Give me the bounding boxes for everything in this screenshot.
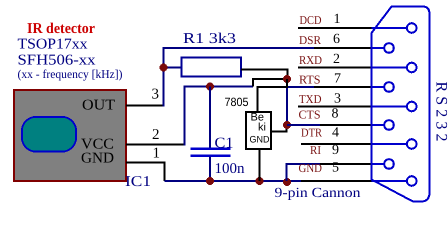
wire DSR black segment (314, 47, 372, 49)
connector pin 9 (384, 159, 394, 169)
svg-text:5: 5 (332, 161, 339, 176)
connector pin 1 (407, 23, 417, 33)
wire VCC riser and run (185, 87, 254, 146)
wire RI riser (287, 164, 323, 181)
wire OUT net riser and top run to DSR (164, 48, 317, 107)
svg-text:ki: ki (258, 122, 266, 134)
connector pin stubs right column (1,2,3,4,5) (372, 27, 412, 29)
svg-text:1: 1 (334, 12, 341, 27)
svg-text:IR detector: IR detector (27, 21, 95, 37)
svg-text:6: 6 (333, 32, 340, 47)
wire R1 left lead (164, 67, 183, 69)
wire RI row black segment (320, 163, 372, 165)
svg-text:9-pin Cannon: 9-pin Cannon (275, 186, 361, 201)
wire DTR row (301, 143, 372, 145)
wire OUT stub (pin 3) (126, 105, 165, 107)
wire TXD row (298, 106, 372, 108)
svg-text:C1: C1 (215, 136, 234, 152)
wire R1 right lead down to +V node (241, 70, 288, 80)
connector pin 6 (384, 43, 394, 53)
resistor R1 (182, 58, 242, 77)
wire CTS navy segment (287, 124, 322, 126)
connector pin 5 (407, 176, 417, 186)
DB9 connector outline (372, 7, 430, 202)
svg-text:4: 4 (332, 126, 339, 141)
wire VCC stub (pin 2) (126, 144, 186, 146)
svg-text:8: 8 (332, 107, 339, 122)
svg-text:DCD: DCD (300, 13, 322, 27)
svg-text:CTS: CTS (299, 108, 321, 122)
svg-text:RXD: RXD (299, 53, 322, 67)
connector pin 4 (407, 139, 417, 149)
connector pin 8 (384, 120, 394, 130)
wire GND row black segment to connector (301, 180, 378, 182)
regulator U1 7805 body (246, 112, 271, 149)
svg-text:(xx - frequency [kHz]): (xx - frequency [kHz]) (18, 67, 123, 81)
svg-text:2: 2 (333, 52, 340, 67)
wire RTS navy segment (287, 86, 317, 88)
svg-text:9: 9 (332, 143, 339, 158)
node +V junction (283, 75, 291, 83)
svg-text:7805: 7805 (225, 95, 249, 109)
svg-text:100n: 100n (215, 161, 246, 177)
svg-text:DTR: DTR (301, 126, 322, 140)
regulator 7805 ground lead (259, 149, 261, 181)
node GND/RI junction (283, 178, 291, 186)
svg-text:TXD: TXD (299, 92, 322, 106)
svg-text:OUT: OUT (82, 98, 115, 114)
connector pin stubs left column (6,7,8,9) (372, 47, 390, 49)
svg-text:GND: GND (81, 151, 114, 167)
wire GND stub (pin 1) (126, 163, 165, 182)
svg-text:3: 3 (152, 87, 160, 103)
svg-text:IC1: IC1 (125, 174, 151, 190)
capacitor C1 plates (191, 147, 231, 149)
svg-text:TSOP17xx: TSOP17xx (18, 37, 89, 53)
wire DCD row (298, 27, 372, 29)
svg-text:RTS: RTS (299, 73, 321, 87)
wire RXD row (298, 67, 372, 69)
svg-text:GND: GND (250, 135, 270, 146)
svg-text:RI: RI (310, 143, 321, 157)
svg-text:7: 7 (334, 72, 341, 87)
svg-text:DSR: DSR (299, 33, 321, 47)
node C1/GND junction (206, 177, 214, 185)
node OUT/R1 junction (160, 64, 168, 72)
wire RTS black segment (314, 86, 372, 88)
node 7805 GND junction (256, 177, 264, 185)
connector pin 2 (407, 63, 417, 73)
svg-text:GND: GND (299, 161, 323, 175)
IR receiver lens (22, 117, 76, 152)
connector pin 7 (384, 82, 394, 92)
svg-text:R1 3k3: R1 3k3 (183, 31, 236, 47)
wire +V vertical to CTS node (286, 79, 288, 90)
svg-text:2: 2 (152, 127, 160, 143)
capacitor C1 top lead (209, 87, 211, 148)
node VCC/C1 junction (206, 83, 214, 91)
wire VCC step up to +V node (253, 79, 288, 87)
regulator 7805 output lead (271, 125, 287, 132)
svg-text:1: 1 (153, 146, 161, 162)
IR receiver module IC1 body (14, 90, 126, 181)
connector pin 3 (407, 102, 417, 112)
node CTS/+5V junction (283, 121, 291, 129)
svg-text:3: 3 (334, 92, 341, 107)
regulator 7805 input wire from RTS (258, 87, 288, 113)
wire CTS black segment (320, 124, 372, 126)
capacitor C1 bottom lead (209, 157, 211, 182)
wire GND bus (165, 180, 304, 182)
